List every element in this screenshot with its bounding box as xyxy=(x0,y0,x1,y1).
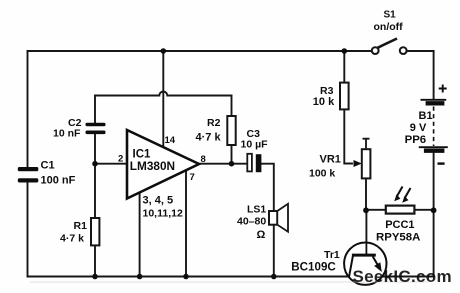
node base (VR1/PCC1/Tr1) xyxy=(363,207,369,213)
svg-text:R2: R2 xyxy=(207,117,221,129)
node top rail / pin14 xyxy=(161,48,167,54)
node input (C2/R1/pin2) xyxy=(92,161,98,167)
svg-text:7: 7 xyxy=(190,172,195,183)
wire R3 bottom to VR1 wiper xyxy=(344,109,352,163)
scan shadow artifact under bottom rail xyxy=(30,281,428,283)
node battery- / PCC1 xyxy=(431,207,437,213)
wire LS1 bottom to ground rail xyxy=(273,225,275,277)
wire top rail left segment xyxy=(28,50,373,52)
wire input node down to R1 xyxy=(94,164,96,218)
wire R1 bottom to ground rail xyxy=(94,245,96,276)
Tr1 base bar xyxy=(352,254,376,257)
wire right wall top (switch to battery +) xyxy=(433,51,435,100)
node ground pin7 xyxy=(183,274,189,280)
svg-text:on/off: on/off xyxy=(374,21,404,33)
node ground R1 xyxy=(92,274,98,280)
PCC1 light arrows xyxy=(397,187,411,199)
node ground pins345 xyxy=(137,274,143,280)
battery top cell: long thin positive plate xyxy=(421,99,447,101)
svg-text:LS1: LS1 xyxy=(247,204,266,216)
battery top cell: short thick negative plate xyxy=(426,101,445,105)
svg-text:4·7 k: 4·7 k xyxy=(60,233,84,245)
resistor R3 xyxy=(340,83,349,110)
wire base node to transistor xyxy=(365,210,367,254)
photocell PCC1 xyxy=(386,206,415,214)
wire left wall upper (to C1 top plate) xyxy=(27,51,29,167)
battery bottom cell: short thick plate xyxy=(424,148,445,152)
svg-text:R1: R1 xyxy=(74,220,88,232)
potentiometer VR1 xyxy=(362,149,371,178)
svg-text:9 V: 9 V xyxy=(410,122,427,134)
node ground LS1 xyxy=(271,274,277,280)
svg-text:40–80: 40–80 xyxy=(237,216,266,228)
VR1 wiper arrowhead xyxy=(354,160,362,167)
capacitor C1 xyxy=(18,167,39,183)
wire top rail right segment after switch xyxy=(407,50,434,52)
svg-text:10 µF: 10 µF xyxy=(241,139,269,151)
Tr1 emitter diagonal with arrow xyxy=(373,256,378,264)
svg-text:VR1: VR1 xyxy=(320,154,341,166)
wire C2 bottom to input node xyxy=(94,134,96,164)
svg-text:2: 2 xyxy=(118,154,123,165)
svg-text:14: 14 xyxy=(165,135,176,146)
wire C2 top vertical xyxy=(94,96,96,123)
switch S1 xyxy=(372,39,407,54)
wire PCC node down right wall to ground rail xyxy=(433,210,435,276)
resistor R2 xyxy=(227,116,235,145)
resistor R1 xyxy=(91,218,99,245)
wire PCC1 left lead xyxy=(366,209,387,211)
svg-text:B1: B1 xyxy=(419,110,433,122)
svg-text:10,11,12: 10,11,12 xyxy=(143,208,183,220)
svg-text:PCC1: PCC1 xyxy=(385,219,414,231)
wire pin 2 input xyxy=(95,163,127,165)
wire left wall lower (C1 bottom to bottom rail) xyxy=(27,183,29,277)
Tr1 base lead inside circle xyxy=(365,243,367,254)
svg-text:S1: S1 xyxy=(384,10,397,21)
svg-text:100 nF: 100 nF xyxy=(41,175,76,187)
transistor Q1 Tr1 BC109C xyxy=(344,243,386,285)
svg-text:4·7 k: 4·7 k xyxy=(196,132,222,144)
wire feedback rail y=95.5 with hop over pin14 line xyxy=(95,92,232,96)
op-amp U1 IC1 LM380N xyxy=(127,130,199,199)
svg-text:SeekIC.com: SeekIC.com xyxy=(353,267,452,286)
svg-text:Ω: Ω xyxy=(257,229,266,241)
svg-text:10 nF: 10 nF xyxy=(53,128,81,140)
svg-text:100 k: 100 k xyxy=(309,168,335,180)
svg-text:PP6: PP6 xyxy=(405,134,427,146)
capacitor C3 (electrolytic) xyxy=(247,154,252,172)
wire pin 14 from top rail xyxy=(162,51,164,146)
battery B1 xyxy=(419,85,448,164)
svg-text:3, 4, 5: 3, 4, 5 xyxy=(143,195,174,207)
node top rail / R3 xyxy=(342,48,348,54)
battery + sign xyxy=(439,85,447,93)
svg-text:8: 8 xyxy=(201,154,206,165)
Tr1 collector diagonal xyxy=(349,256,353,277)
wire output pin 8 to node xyxy=(199,163,247,165)
wire VR1 bottom to base node xyxy=(365,178,367,210)
wire R3 top from rail xyxy=(343,51,345,83)
node output (R2/C3) xyxy=(229,161,235,167)
svg-text:LM380N: LM380N xyxy=(130,159,175,173)
wire pin 7 to ground xyxy=(185,170,187,277)
capacitor C2 xyxy=(86,123,106,134)
wire pins 3,4,5,10,11,12 to ground xyxy=(139,193,141,277)
wire R2 bottom to output node xyxy=(231,145,233,164)
battery dashed internal link xyxy=(433,107,435,147)
battery bottom cell: long thin plate xyxy=(419,146,448,148)
wire R2 top drop xyxy=(231,96,233,117)
wire C3 right to LS1 xyxy=(261,164,274,211)
speaker LS1 xyxy=(269,211,277,225)
svg-text:R3: R3 xyxy=(320,85,334,97)
svg-text:10 k: 10 k xyxy=(313,96,335,108)
battery - sign xyxy=(438,162,445,164)
svg-text:BC109C: BC109C xyxy=(291,261,336,274)
wire PCC1 right lead xyxy=(414,209,433,211)
svg-text:Tr1: Tr1 xyxy=(324,249,340,261)
wire battery - to PCC node xyxy=(433,152,435,210)
svg-text:C1: C1 xyxy=(41,160,55,172)
svg-text:RPY58A: RPY58A xyxy=(376,232,420,244)
VR1 top stub with end tick xyxy=(363,139,370,150)
wire bottom rail xyxy=(28,276,434,278)
